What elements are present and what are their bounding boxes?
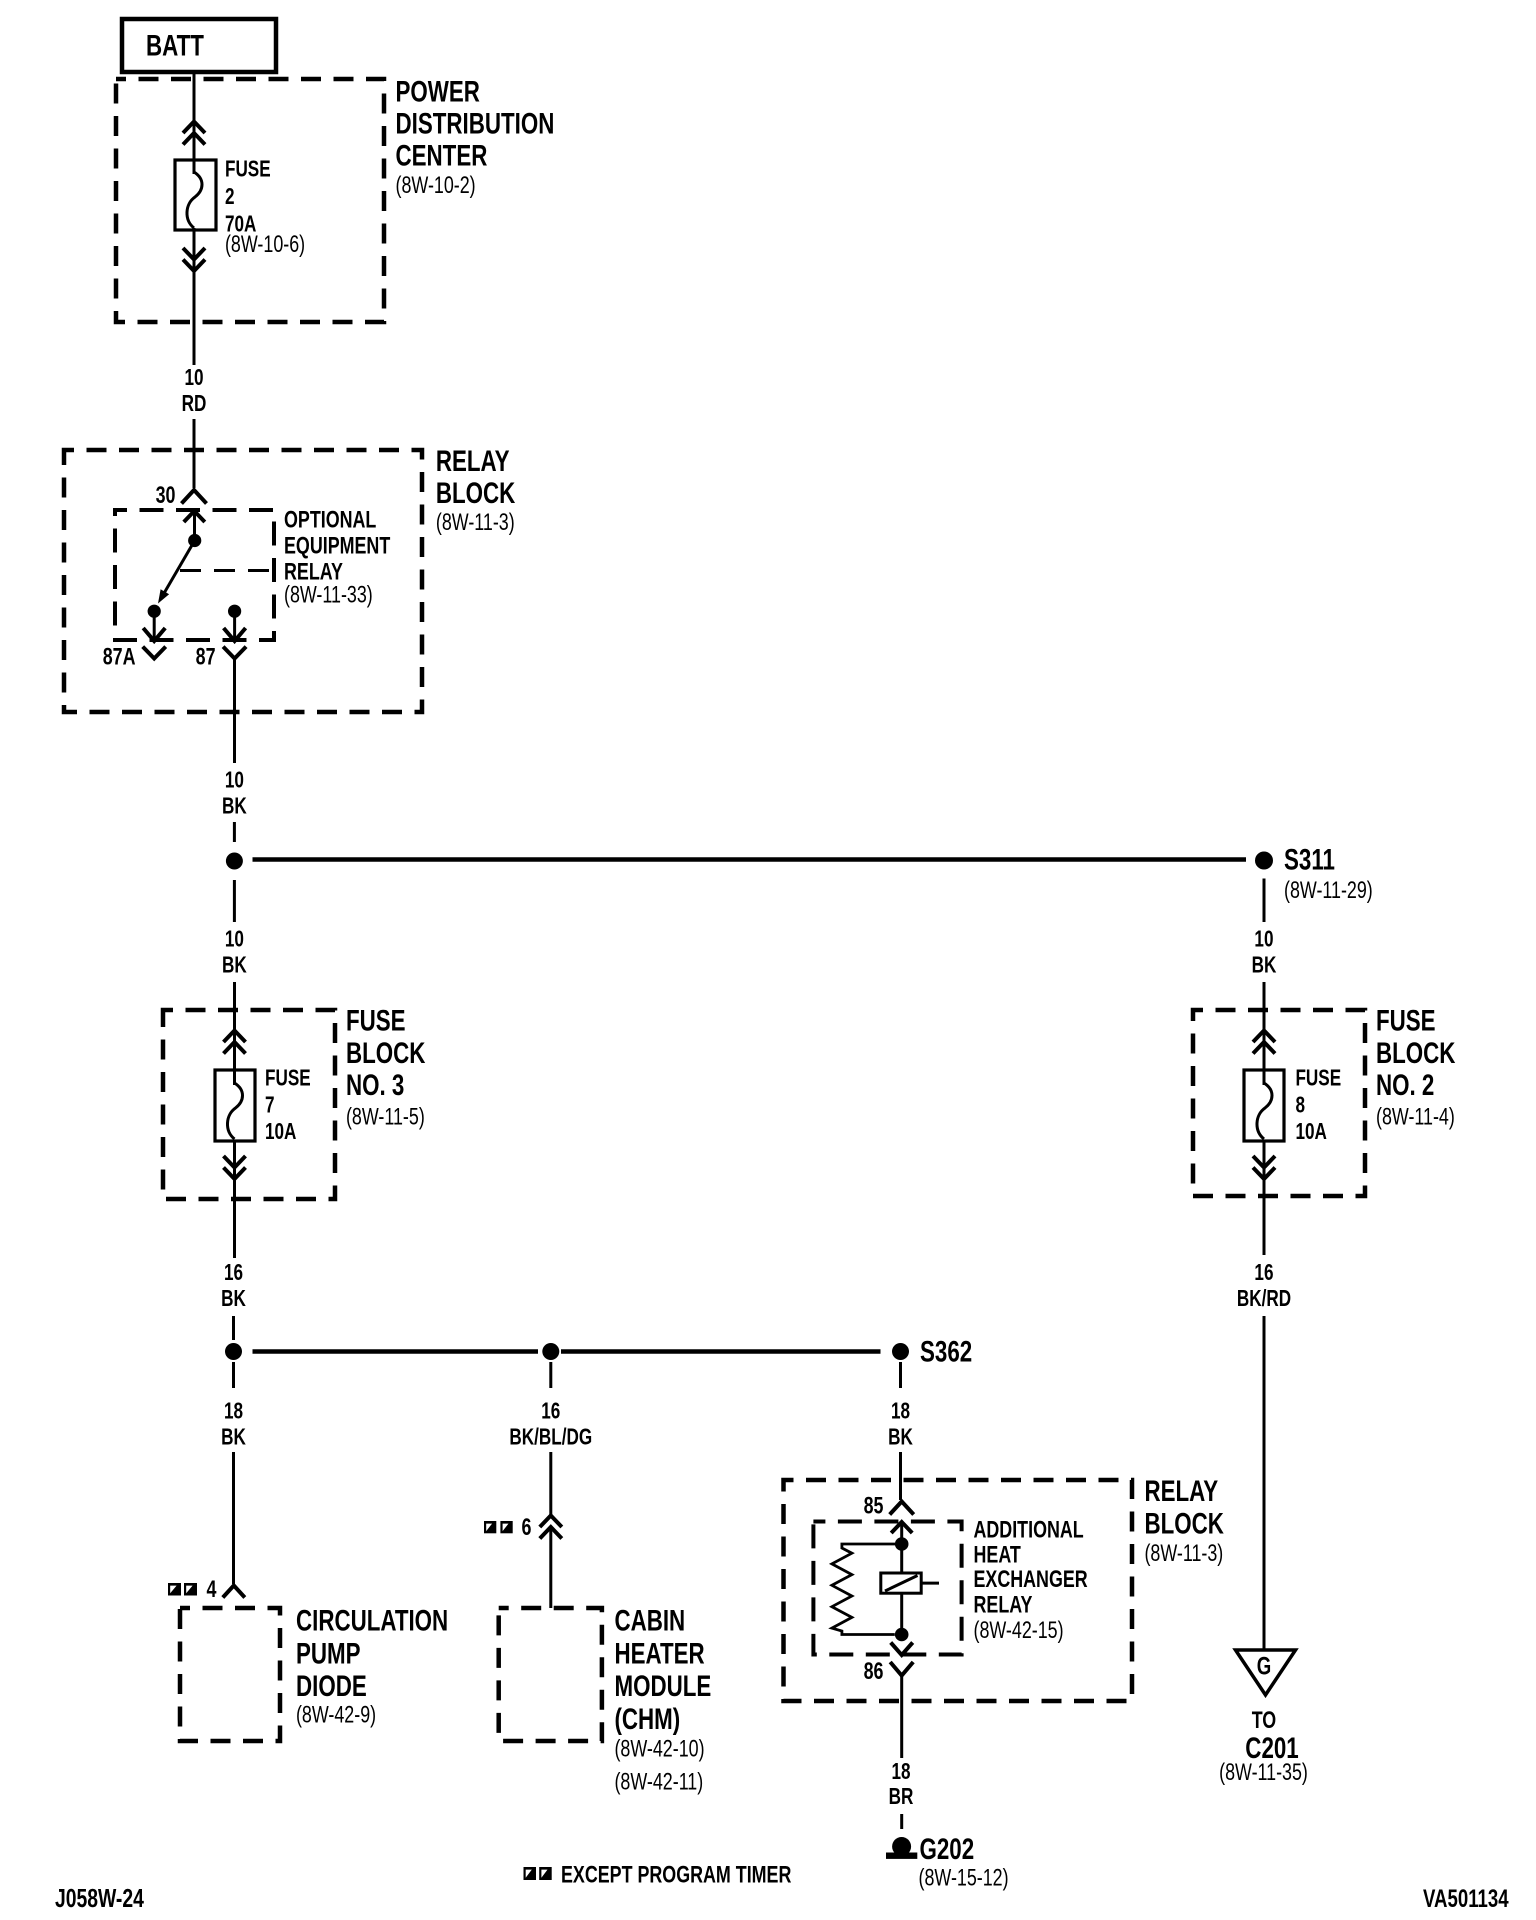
svg-text:16: 16: [541, 1399, 560, 1424]
fuse block no 2 box: [1193, 1010, 1365, 1196]
svg-text:87: 87: [196, 644, 216, 670]
pin 86 connector chevron: [890, 1662, 913, 1676]
svg-text:RELAY: RELAY: [973, 1592, 1032, 1618]
svg-text:EXCHANGER: EXCHANGER: [973, 1567, 1087, 1593]
svg-text:VA501134: VA501134: [1423, 1884, 1509, 1912]
wire fuse block 2 down: [1263, 1141, 1266, 1255]
middle junction dot: [542, 1343, 559, 1360]
svg-text:(CHM): (CHM): [614, 1702, 680, 1736]
svg-text:(8W-42-9): (8W-42-9): [296, 1702, 376, 1728]
legend squares: [524, 1867, 552, 1880]
wire middle branch top: [549, 1362, 552, 1388]
wire fuse block 3 down: [233, 1141, 236, 1258]
wire fuse 2 down: [193, 228, 196, 365]
svg-text:BK: BK: [222, 953, 247, 978]
wire label 16 BK/BL/DG: [509, 1399, 592, 1450]
wire label 16 BK/RD: [1237, 1261, 1291, 1312]
svg-text:10: 10: [184, 366, 203, 391]
svg-text:BK/RD: BK/RD: [1237, 1287, 1291, 1312]
wire label 18 BK 2: [888, 1399, 913, 1450]
relay coil terminal 86: [891, 1628, 913, 1655]
svg-text:(8W-11-35): (8W-11-35): [1219, 1760, 1308, 1786]
svg-text:NO. 2: NO. 2: [1376, 1068, 1434, 1102]
relay block 2 label: [1144, 1474, 1223, 1567]
wire to S362 junction: [232, 1316, 235, 1340]
svg-text:BK/BL/DG: BK/BL/DG: [509, 1425, 592, 1450]
wire label 18 BK: [221, 1399, 246, 1450]
svg-text:FUSE: FUSE: [225, 157, 271, 182]
svg-text:18: 18: [224, 1399, 243, 1424]
wire label 16 BK: [221, 1261, 246, 1312]
svg-text:BLOCK: BLOCK: [1376, 1036, 1455, 1070]
svg-text:FUSE: FUSE: [265, 1066, 311, 1091]
svg-text:4: 4: [207, 1577, 217, 1603]
fuse 2: [175, 160, 216, 230]
svg-text:18: 18: [891, 1760, 910, 1785]
pin 6 marks and label: [484, 1515, 531, 1541]
fuse 8: [1244, 1070, 1284, 1141]
svg-text:(8W-11-4): (8W-11-4): [1376, 1104, 1455, 1130]
svg-text:BLOCK: BLOCK: [1144, 1506, 1223, 1540]
svg-text:(8W-11-33): (8W-11-33): [284, 582, 373, 608]
svg-text:MODULE: MODULE: [614, 1669, 711, 1703]
wire label 10 RD: [182, 366, 207, 417]
svg-text:18: 18: [891, 1399, 910, 1424]
svg-text:BK: BK: [222, 794, 247, 819]
wire dash above ground: [900, 1814, 903, 1829]
splice S311: [1255, 842, 1373, 903]
wire to fuse block 2: [1263, 982, 1266, 1085]
pin 4 marks and label: [168, 1577, 217, 1603]
wire S311 down: [1263, 879, 1266, 923]
svg-text:DIODE: DIODE: [296, 1669, 367, 1703]
optional equipment relay label: [284, 507, 390, 608]
pin 6 connector chevrons: [540, 1516, 562, 1539]
wire 86 down: [900, 1676, 903, 1759]
wire label 10 BK: [222, 768, 247, 819]
battery feed BATT: [122, 19, 276, 72]
fuse 7 entry chevrons: [224, 1031, 246, 1054]
connector chevrons at PDC exit: [183, 248, 205, 271]
svg-text:BATT: BATT: [146, 28, 204, 62]
svg-text:PUMP: PUMP: [296, 1636, 361, 1670]
svg-text:(8W-11-3): (8W-11-3): [1144, 1541, 1223, 1567]
svg-text:86: 86: [864, 1659, 884, 1685]
svg-text:S311: S311: [1284, 842, 1335, 876]
wire dash above junction: [233, 822, 236, 842]
svg-text:FUSE: FUSE: [1295, 1066, 1341, 1091]
relay block 2 box: [784, 1480, 1133, 1701]
circulation pump diode box: [180, 1608, 280, 1741]
resistor: [832, 1544, 895, 1635]
wire into cabin heater module: [549, 1528, 552, 1608]
svg-text:16: 16: [224, 1261, 243, 1286]
svg-text:(8W-42-11): (8W-42-11): [614, 1769, 703, 1795]
fuse 7: [215, 1070, 255, 1141]
svg-text:85: 85: [864, 1493, 884, 1519]
fuse 7 label: [265, 1066, 311, 1144]
svg-text:2: 2: [225, 185, 235, 210]
svg-text:(8W-42-15): (8W-42-15): [973, 1618, 1063, 1644]
svg-text:CENTER: CENTER: [396, 138, 488, 172]
circulation pump diode label: [296, 1603, 448, 1728]
svg-text:10: 10: [225, 768, 244, 793]
pin 87 connector chevron: [223, 647, 246, 659]
wire label 18 BR: [889, 1760, 914, 1810]
svg-text:HEAT: HEAT: [973, 1542, 1020, 1568]
wire S362 left segment: [253, 1349, 539, 1354]
wire 87 down: [233, 659, 236, 764]
svg-text:8: 8: [1295, 1093, 1305, 1118]
svg-text:S362: S362: [920, 1334, 972, 1368]
wire to ground symbol G: [1263, 1316, 1266, 1650]
wire RD to relay pin 30: [193, 419, 196, 488]
pin 87 terminal: [224, 605, 246, 641]
svg-text:TO: TO: [1252, 1708, 1277, 1734]
svg-text:BK: BK: [1252, 953, 1277, 978]
ground symbol G triangle: [1236, 1650, 1296, 1695]
pin 87A terminal: [143, 605, 165, 641]
relay coil: [881, 1551, 939, 1629]
svg-text:OPTIONAL: OPTIONAL: [284, 507, 376, 533]
svg-text:RD: RD: [182, 392, 207, 417]
svg-text:(8W-10-2): (8W-10-2): [396, 173, 476, 199]
svg-text:EXCEPT PROGRAM TIMER: EXCEPT PROGRAM TIMER: [561, 1862, 791, 1888]
wire label 10 BK right: [1252, 927, 1277, 978]
fuse 8 entry chevrons: [1253, 1031, 1275, 1054]
svg-text:POWER: POWER: [396, 74, 480, 108]
svg-text:BR: BR: [889, 1785, 914, 1810]
svg-text:EQUIPMENT: EQUIPMENT: [284, 533, 390, 559]
relay throw dashed line: [180, 569, 274, 572]
svg-text:G: G: [1257, 1652, 1271, 1680]
svg-text:ADDITIONAL: ADDITIONAL: [973, 1517, 1083, 1543]
svg-text:FUSE: FUSE: [1376, 1003, 1436, 1037]
power distribution center box: [116, 79, 384, 322]
fuse block no 3 label: [346, 1003, 425, 1130]
pin 85 connector chevron: [890, 1502, 914, 1515]
wire to circulation pump diode: [232, 1452, 235, 1584]
wire to chevron 6: [549, 1452, 552, 1515]
svg-text:BLOCK: BLOCK: [346, 1036, 425, 1070]
pin 30 connector chevron: [182, 490, 207, 504]
svg-text:CIRCULATION: CIRCULATION: [296, 1603, 448, 1637]
splice S362: [892, 1334, 972, 1368]
wire S362 right segment: [561, 1349, 881, 1354]
svg-text:DISTRIBUTION: DISTRIBUTION: [396, 106, 555, 140]
svg-text:10A: 10A: [265, 1120, 297, 1145]
fuse block no 2 label: [1376, 1003, 1455, 1130]
wire to fuse block 3: [233, 982, 236, 1085]
relay coil terminal 85: [891, 1522, 912, 1551]
cabin heater module label: [614, 1603, 711, 1795]
fuse 2 label: [225, 157, 305, 257]
relay block box: [64, 450, 422, 712]
svg-text:CABIN: CABIN: [614, 1603, 685, 1637]
svg-text:RELAY: RELAY: [1144, 1474, 1218, 1508]
svg-text:G202: G202: [919, 1832, 974, 1866]
additional heat exchanger relay box: [813, 1522, 961, 1655]
cabin heater module box: [499, 1608, 602, 1741]
to C201 label: [1219, 1708, 1308, 1786]
svg-text:(8W-11-3): (8W-11-3): [436, 510, 515, 536]
svg-text:(8W-10-6): (8W-10-6): [225, 232, 305, 258]
ground G202 label: [919, 1832, 1009, 1891]
svg-text:BK: BK: [888, 1425, 913, 1450]
svg-text:J058W-24: J058W-24: [55, 1883, 144, 1912]
ground G202: [886, 1837, 917, 1859]
svg-text:30: 30: [156, 483, 176, 509]
svg-text:NO. 3: NO. 3: [346, 1068, 404, 1102]
additional heat exchanger relay label: [973, 1517, 1087, 1644]
relay common terminal 30: [184, 511, 205, 547]
wire junction to S311: [253, 857, 1247, 862]
svg-text:BK: BK: [221, 1287, 246, 1312]
pin 87A connector chevron: [143, 647, 166, 659]
fuse 8 label: [1295, 1066, 1341, 1144]
svg-text:(8W-11-5): (8W-11-5): [346, 1104, 425, 1130]
svg-text:87A: 87A: [103, 644, 136, 670]
wire left branch top: [232, 1362, 235, 1388]
wire to relay pin 85: [899, 1452, 902, 1500]
junction dot: [226, 853, 243, 870]
svg-text:RELAY: RELAY: [436, 444, 510, 478]
relay switch arm: [158, 541, 195, 604]
wire label 10 BK 2: [222, 927, 247, 978]
fuse 7 exit chevrons: [224, 1156, 246, 1179]
svg-text:FUSE: FUSE: [346, 1003, 406, 1037]
fuse block no 3 box: [163, 1010, 335, 1199]
svg-text:10: 10: [1254, 927, 1273, 952]
pin 4 connector chevron: [223, 1586, 245, 1598]
wire junction down: [233, 880, 236, 922]
svg-text:BK: BK: [221, 1425, 246, 1450]
left junction dot: [225, 1343, 242, 1360]
svg-text:(8W-15-12): (8W-15-12): [919, 1865, 1009, 1891]
svg-text:(8W-42-10): (8W-42-10): [614, 1736, 704, 1762]
svg-text:7: 7: [265, 1093, 275, 1118]
svg-text:10A: 10A: [1295, 1120, 1327, 1145]
svg-text:16: 16: [1254, 1261, 1273, 1286]
svg-text:HEATER: HEATER: [614, 1636, 704, 1670]
wire right branch top: [899, 1362, 902, 1388]
optional equipment relay box: [115, 510, 274, 640]
svg-text:(8W-11-29): (8W-11-29): [1284, 878, 1373, 904]
power distribution center label: [396, 74, 555, 198]
relay block label: [436, 444, 515, 536]
svg-text:10: 10: [225, 927, 244, 952]
svg-text:6: 6: [522, 1515, 532, 1541]
wire BATT to fuse 2: [193, 72, 196, 174]
connector chevrons at PDC entry: [183, 122, 205, 145]
svg-text:BLOCK: BLOCK: [436, 476, 515, 510]
fuse 8 exit chevrons: [1253, 1156, 1275, 1179]
